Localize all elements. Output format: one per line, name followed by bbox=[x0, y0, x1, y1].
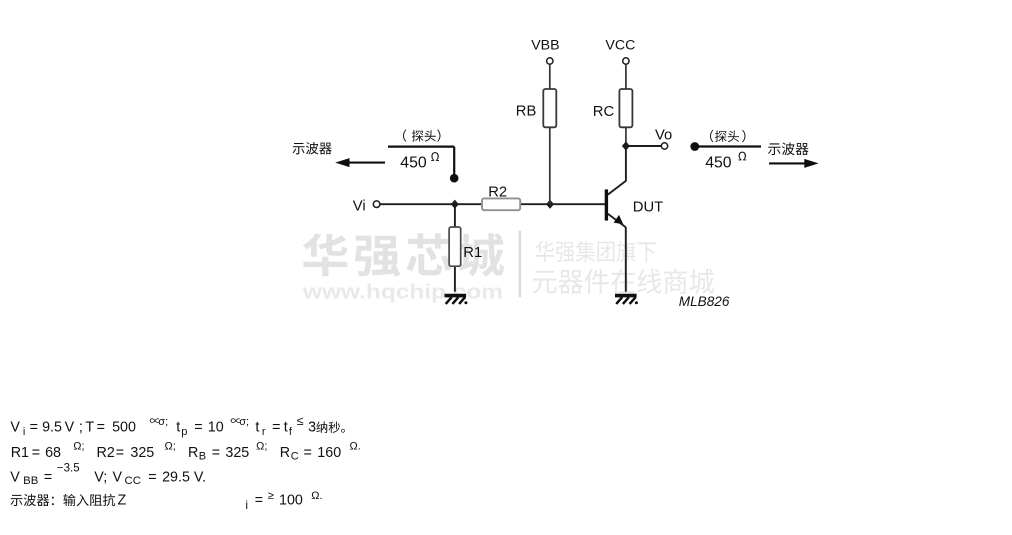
wire Vi to base bbox=[380, 203, 606, 205]
watermark divider bar bbox=[519, 231, 522, 298]
svg-text:≥: ≥ bbox=[268, 490, 274, 502]
svg-text:V: V bbox=[113, 469, 123, 485]
svg-text:=: = bbox=[116, 445, 124, 461]
watermark 华强集团旗下 bbox=[536, 241, 656, 263]
svg-text:Ω;: Ω; bbox=[256, 440, 267, 452]
svg-text:=: = bbox=[304, 445, 312, 461]
svg-text:160: 160 bbox=[317, 445, 341, 461]
terminal VCC bbox=[623, 58, 629, 64]
arrow shaft to right oscilloscope bbox=[769, 162, 805, 164]
conditions line 3 bbox=[10, 462, 206, 487]
svg-text:Ω.: Ω. bbox=[311, 490, 322, 502]
label 探头 right bbox=[715, 130, 739, 142]
svg-text:r: r bbox=[262, 426, 266, 438]
label Ω (left) bbox=[431, 152, 439, 161]
left probe horizontal line bbox=[388, 146, 454, 148]
svg-text:Ω;: Ω; bbox=[165, 440, 176, 452]
right probe horizontal line bbox=[695, 145, 761, 147]
svg-text:450: 450 bbox=[705, 154, 732, 171]
label ） of right probe bbox=[742, 130, 745, 142]
emitter lead diagonal bbox=[608, 214, 626, 228]
svg-text:MLB826: MLB826 bbox=[679, 294, 730, 309]
resistor RB bbox=[543, 89, 556, 127]
conditions line 1 bbox=[10, 414, 345, 438]
svg-text:Z: Z bbox=[118, 493, 127, 509]
conditions line 2 bbox=[11, 440, 361, 462]
resistor RC bbox=[619, 89, 632, 127]
watermark 元器件在线商城 bbox=[533, 269, 714, 295]
collector lead vertical bbox=[625, 146, 627, 181]
svg-text:325: 325 bbox=[130, 445, 154, 461]
svg-text:29.5 V.: 29.5 V. bbox=[162, 469, 206, 485]
svg-text:C: C bbox=[291, 451, 299, 463]
svg-text:68: 68 bbox=[45, 445, 61, 461]
resistor R1 bbox=[449, 227, 461, 266]
svg-text:V: V bbox=[10, 469, 20, 485]
wire VBB to RB to base node bbox=[549, 64, 551, 204]
terminal VBB bbox=[547, 58, 553, 64]
svg-text:V;: V; bbox=[94, 469, 107, 485]
junction node at R1/probe bbox=[451, 200, 459, 209]
svg-text:i: i bbox=[245, 498, 248, 512]
svg-text:Ω.: Ω. bbox=[350, 440, 361, 452]
wire junction to R1 and ground bbox=[454, 204, 456, 292]
svg-text:RB: RB bbox=[516, 103, 537, 119]
emitter lead vertical bbox=[625, 227, 627, 292]
label ） of left probe bbox=[437, 130, 440, 142]
ground (R1) bbox=[445, 296, 468, 305]
svg-text:=: = bbox=[32, 445, 40, 461]
svg-text:325: 325 bbox=[225, 445, 249, 461]
svg-text:σ;: σ; bbox=[239, 416, 249, 428]
svg-text:R: R bbox=[188, 445, 198, 461]
label （ of left probe bbox=[403, 130, 406, 142]
svg-text:=: = bbox=[44, 469, 52, 485]
svg-text:=: = bbox=[30, 419, 38, 435]
svg-text:DUT: DUT bbox=[633, 200, 663, 216]
junction node at RB bbox=[546, 200, 554, 209]
svg-text:V: V bbox=[10, 419, 20, 435]
svg-text:T: T bbox=[85, 419, 94, 435]
terminal Vo bbox=[661, 143, 667, 149]
label 示波器 (right oscilloscope) bbox=[768, 142, 809, 155]
svg-text:RC: RC bbox=[593, 104, 615, 120]
svg-text:100: 100 bbox=[279, 493, 303, 509]
left probe dot bbox=[450, 174, 459, 183]
resistor R2 bbox=[482, 198, 520, 210]
svg-text:Ω;: Ω; bbox=[73, 440, 84, 452]
wire VCC to RC to collector node bbox=[625, 64, 627, 146]
svg-text:=: = bbox=[148, 469, 156, 485]
svg-text:Vi: Vi bbox=[353, 198, 366, 214]
right probe dot bbox=[690, 142, 699, 151]
emitter arrowhead bbox=[614, 215, 624, 224]
svg-text:R1: R1 bbox=[463, 245, 482, 261]
label Ω (right) bbox=[738, 152, 746, 161]
junction node collector/Vo bbox=[622, 141, 630, 150]
svg-text:≤: ≤ bbox=[297, 414, 304, 428]
svg-text:=: = bbox=[272, 419, 280, 435]
svg-text:R2: R2 bbox=[97, 445, 115, 461]
svg-text:R: R bbox=[280, 445, 290, 461]
svg-text:σ;: σ; bbox=[158, 416, 168, 428]
terminal Vi bbox=[373, 201, 380, 208]
svg-text:10: 10 bbox=[208, 419, 224, 435]
svg-text:500: 500 bbox=[112, 419, 136, 435]
svg-text:Vo: Vo bbox=[655, 128, 672, 144]
svg-text:VCC: VCC bbox=[605, 38, 635, 54]
svg-text:=: = bbox=[212, 445, 220, 461]
label 示波器 (left oscilloscope) bbox=[293, 142, 332, 154]
svg-text:3: 3 bbox=[308, 419, 316, 435]
svg-text:=: = bbox=[255, 493, 263, 509]
svg-text:i: i bbox=[23, 426, 25, 438]
svg-text:=: = bbox=[97, 419, 105, 435]
svg-text:R2: R2 bbox=[488, 184, 507, 200]
svg-text:t: t bbox=[255, 419, 259, 435]
svg-text:B: B bbox=[199, 451, 206, 463]
svg-text:;: ; bbox=[79, 419, 83, 435]
svg-text:VBB: VBB bbox=[531, 38, 559, 54]
watermark 华强芯城 bbox=[303, 233, 504, 277]
svg-text:CC: CC bbox=[125, 475, 141, 487]
svg-text:R1: R1 bbox=[11, 445, 29, 461]
transistor base bar bbox=[605, 189, 608, 220]
svg-text:www.hqchip.com: www.hqchip.com bbox=[302, 280, 503, 303]
collector lead diagonal bbox=[608, 181, 626, 195]
svg-text:p: p bbox=[181, 426, 187, 438]
svg-text:−3.5: −3.5 bbox=[57, 462, 80, 474]
svg-text:9.5: 9.5 bbox=[42, 419, 62, 435]
left probe vertical line bbox=[453, 147, 455, 175]
svg-text:V: V bbox=[65, 419, 75, 435]
svg-text:450: 450 bbox=[400, 154, 427, 171]
svg-text:=: = bbox=[194, 419, 202, 435]
conditions line 4 bbox=[11, 490, 323, 512]
label （ of right probe bbox=[710, 130, 713, 142]
svg-text:t: t bbox=[176, 419, 180, 435]
ground (emitter) bbox=[615, 296, 638, 305]
svg-text:t: t bbox=[284, 419, 288, 435]
arrowhead (left) bbox=[335, 158, 349, 167]
arrow shaft to left oscilloscope bbox=[349, 162, 386, 164]
svg-text:BB: BB bbox=[23, 475, 38, 487]
arrowhead (right) bbox=[804, 159, 818, 168]
label 探头 left bbox=[412, 130, 436, 142]
wire node to Vo bbox=[626, 145, 661, 147]
